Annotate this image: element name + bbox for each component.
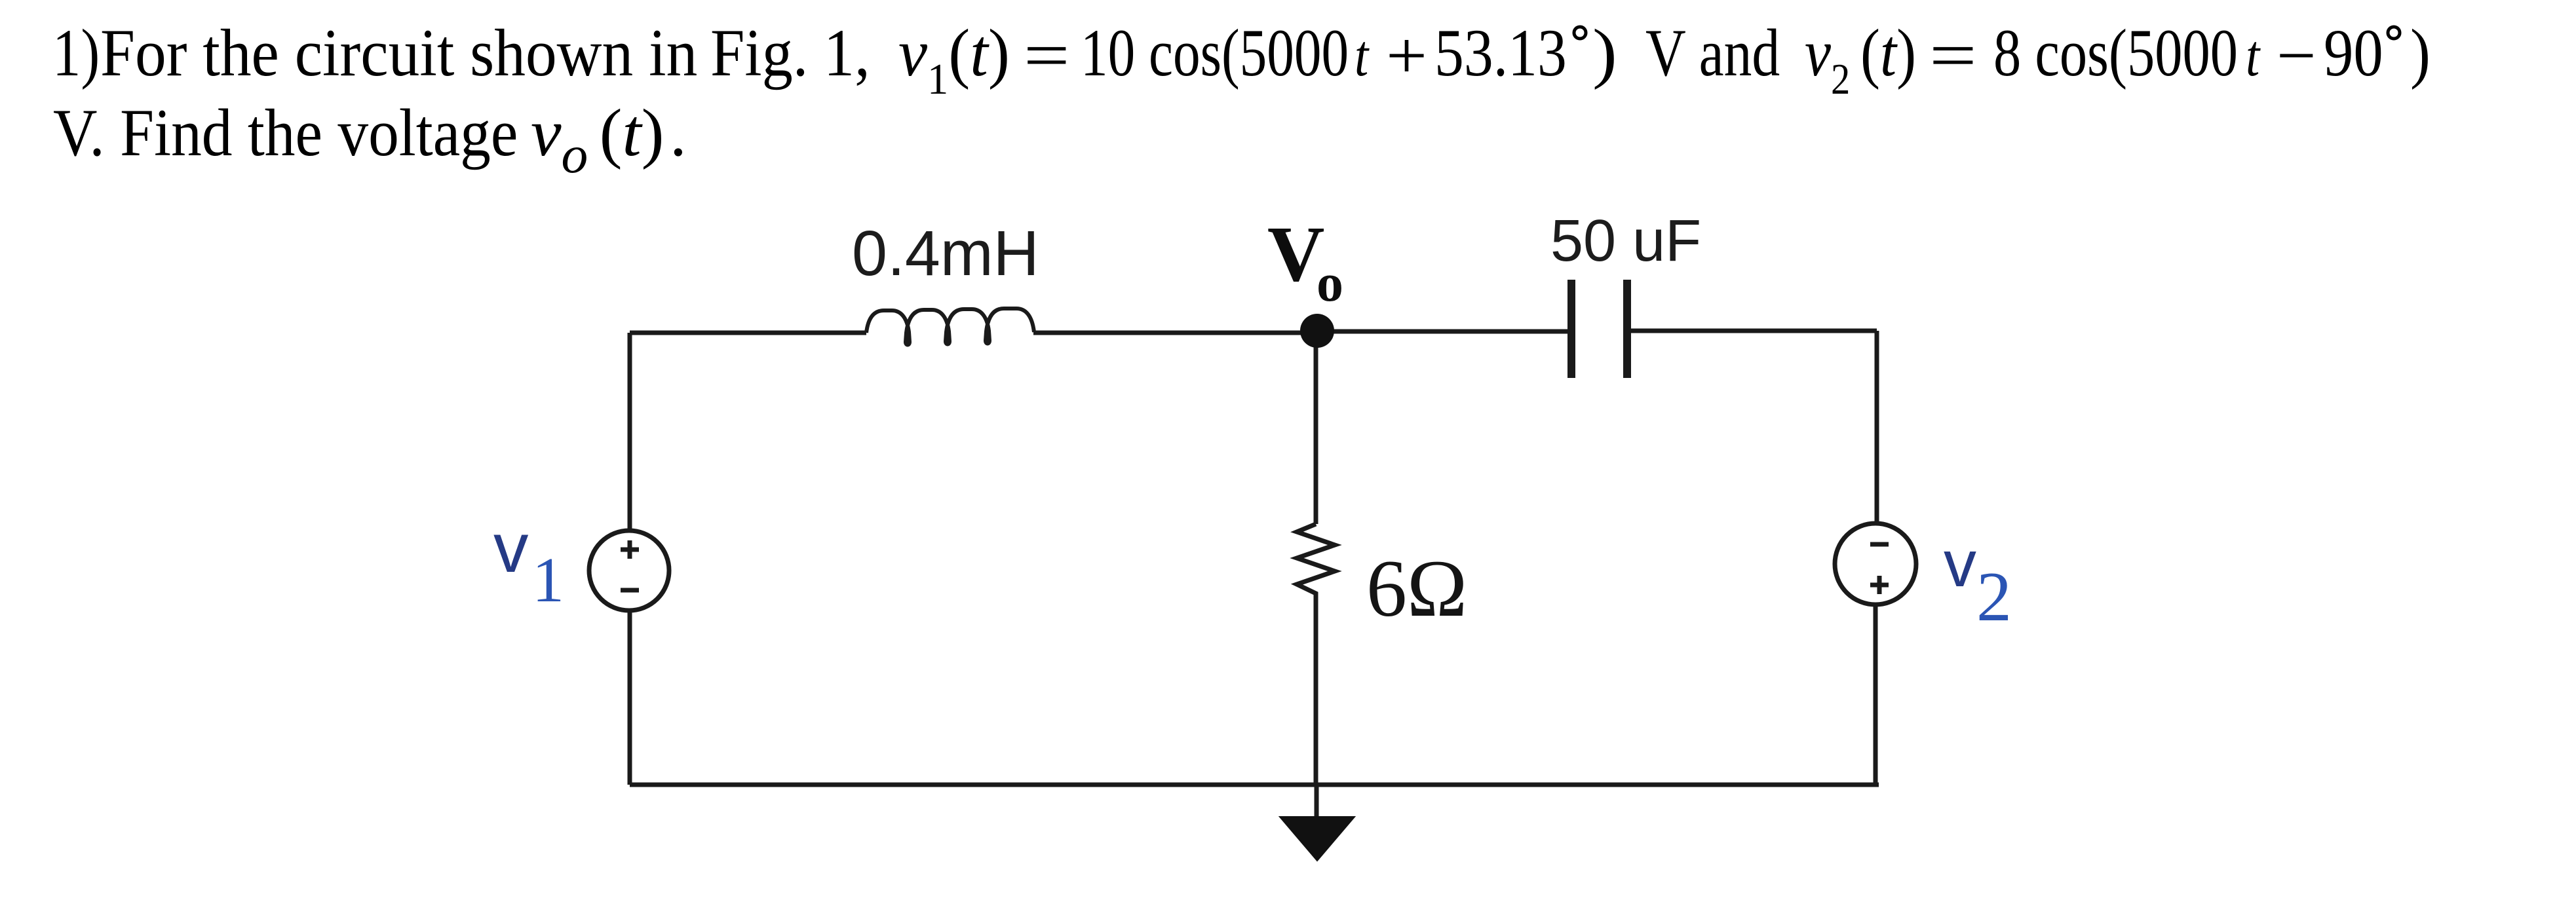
degree sign after 53.13 <box>1574 27 1586 39</box>
v2 minus sign <box>1870 542 1889 547</box>
svg-text:0.4mH: 0.4mH <box>852 217 1039 289</box>
degree sign after 90 <box>2388 27 2400 39</box>
voltage source V2 circle <box>1835 523 1916 605</box>
wire: source v1 to bottom-left corner <box>628 610 632 785</box>
svg-text:v: v <box>493 508 529 587</box>
wire: source v2 to bottom-right corner <box>1874 605 1878 785</box>
svg-text:o: o <box>1317 253 1343 312</box>
wire: right capacitor plate to top-right corner <box>1627 329 1877 333</box>
v1 minus sign <box>621 588 639 593</box>
wire: inductor to node Vo <box>1033 331 1317 335</box>
ground stem <box>1315 785 1319 819</box>
v1 plus sign <box>621 540 639 559</box>
inductor L 0.4mH <box>866 309 1034 345</box>
wire: top-left horizontal from left corner to inductor <box>630 331 866 335</box>
problem statement line 1 <box>52 20 100 87</box>
node Vo junction dot <box>1300 314 1334 348</box>
wire: bottom horizontal <box>630 783 1879 787</box>
capacitor C 50uF left plate <box>1567 280 1575 378</box>
wire: left vertical, top corner down to source v1 <box>628 333 632 531</box>
voltage source V1 circle <box>589 531 669 610</box>
wire: node Vo down to resistor <box>1314 331 1318 524</box>
capacitor C 50uF right plate <box>1623 280 1631 378</box>
v2 plus sign <box>1870 576 1889 594</box>
wire: resistor to bottom wire <box>1314 603 1318 785</box>
resistor R 6ohm zigzag <box>1297 524 1335 603</box>
problem statement line 2 <box>53 100 518 167</box>
svg-text:1: 1 <box>532 545 564 616</box>
wire: node Vo to left capacitor plate <box>1317 329 1570 334</box>
svg-text:2: 2 <box>1976 558 2012 636</box>
svg-text:v: v <box>1944 527 1976 601</box>
svg-text:50 uF: 50 uF <box>1550 208 1701 274</box>
wire: right vertical, corner down to source v2 <box>1875 331 1879 523</box>
ground symbol triangle <box>1280 817 1355 861</box>
svg-text:6Ω: 6Ω <box>1366 544 1467 633</box>
